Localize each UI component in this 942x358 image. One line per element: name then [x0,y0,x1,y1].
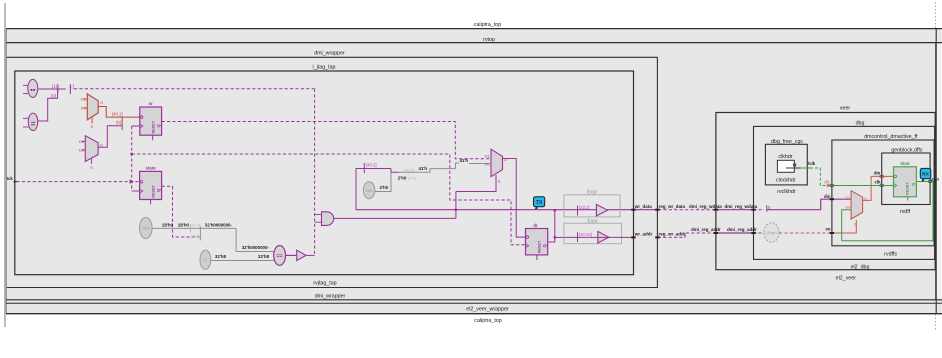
tick din dmcontrol [830,198,834,200]
svg-text:41'h: 41'h [460,158,469,163]
svg-text:[1:0]: [1:0] [408,176,416,181]
svg-text:el2_dbg: el2_dbg [851,265,870,271]
svg-text:D1: D1 [79,139,85,144]
expr box 2 [564,218,622,243]
module genblock.dffs box [882,153,930,205]
svg-text:[33:2]: [33:2] [579,205,589,210]
tick dout genblock [928,181,932,183]
node clk red tick [827,184,830,187]
svg-text:dout: dout [931,177,940,181]
expr1 buffer [596,204,607,216]
svg-text:clockhdr: clockhdr [776,177,796,183]
tick addr dbg [751,232,755,234]
wire 41h step [391,169,399,173]
wire wr_data dashed [658,209,716,211]
node pin bracket [767,205,770,212]
and gate G1 [315,212,334,226]
wire P1 output [38,88,66,90]
wire 8 to eq [211,260,274,262]
module rvtop top border [6,42,942,44]
svg-text:S: S [498,179,501,184]
comparator == [274,246,286,266]
svg-text:RESET: RESET [152,120,156,133]
tick wr_data i_jtag [631,209,635,211]
wire 28h0 concat [152,227,236,229]
svg-text:41'h: 41'h [419,166,428,171]
wire wr_data solid a [634,209,659,211]
svg-text:q: q [910,183,915,186]
svg-text:[40:1]: [40:1] [112,111,122,116]
wire 41h bus left [356,169,391,210]
svg-text:2h0: 2h0 [366,189,372,193]
svg-text:[0]: [0] [116,120,121,125]
tick wr_addr i_jtag [631,236,635,238]
node concat tick [190,224,192,232]
svg-text:[:]: [:] [70,84,74,89]
wire P2 to [0] tap [38,89,58,121]
wire and output [334,217,456,219]
wire wr_data labels [634,204,758,209]
wire en red solid [832,220,856,233]
expr1 tick [33:2] [578,205,590,216]
wire clk green dashed [810,168,830,186]
svg-text:en: en [825,227,830,232]
input port pad P1 [23,79,38,97]
svg-text:[]: [] [768,205,770,210]
svg-text:D1: D1 [81,97,87,102]
port tck [7,176,17,182]
svg-text:wr_data: wr_data [634,204,653,209]
node tick [40:2] [364,163,376,174]
wire din jog [767,199,851,210]
svg-text:dr: dr [533,223,538,228]
svg-text:(Expr): (Expr) [766,231,777,235]
svg-text:O: O [100,143,103,148]
svg-text:S: S [90,124,93,129]
clockhdr inner box [777,160,795,172]
svg-text:RESET: RESET [906,182,910,195]
wire S path [456,175,496,192]
svg-text:lclk: lclk [808,161,816,166]
svg-text:din: din [874,170,881,175]
svg-text:sr: sr [149,101,153,106]
tick wdata veer [714,209,718,211]
wire red tap [0] [116,117,122,130]
module rvtop bottom border [6,299,942,301]
flip-flop state [140,166,162,205]
svg-text:Expr: Expr [587,218,598,224]
svg-text:dmi_wrapper: dmi_wrapper [315,294,346,300]
mux M2 (purple) [79,136,103,170]
svg-text:S: S [90,165,93,170]
wire dmi_reg_addr solid [716,232,754,234]
expr2 buffer [598,231,609,243]
module caliptra_top top border [6,28,942,30]
module rvtop right border [935,43,937,300]
svg-text:el2_veer: el2_veer [836,276,857,282]
wire clkhdr out [786,167,801,169]
module caliptra_top / rvtop left borders [5,29,7,314]
svg-text:dout: dout [900,161,910,166]
svg-text:[31:4]: [31:4] [190,222,200,227]
svg-text:Expr: Expr [587,190,598,196]
wire tck dashed [17,181,140,183]
node bit select [1] [52,84,58,93]
svg-text:caliptra_top: caliptra_top [474,22,501,28]
junction tck [130,180,134,184]
module dmi_wrapper box [7,57,658,287]
wire tdi dashed vertical feedback [314,89,316,256]
svg-text:D0: D0 [81,106,87,111]
svg-text:D1: D1 [485,154,491,159]
junction clock net [130,153,133,156]
selection dotted right edge bottom [935,314,937,330]
wire expr2 through [565,236,634,238]
wire to expr2 [555,236,565,238]
svg-text:28h0: 28h0 [142,227,150,231]
svg-text:32'h0000000-: 32'h0000000- [205,222,233,227]
module veer box [716,113,935,270]
junction dr.Q bus [553,209,556,212]
wire 41h to M3.D0 [469,163,490,165]
tick addr veer [714,232,718,234]
flip-flop rvdff dout [894,161,917,200]
node bit select [0] [51,94,56,99]
svg-text:==: == [276,253,282,259]
svg-text:clk: clk [824,179,830,184]
svg-text:caliptra_top: caliptra_top [474,318,501,324]
tick wr_data dmi [655,209,659,211]
svg-text:clkhdr: clkhdr [778,154,792,160]
svg-text:S: S [854,222,857,227]
wire clk green solid [830,185,895,187]
input port pad P2 [23,113,38,130]
svg-text:dmcontrol_dmactive_ff: dmcontrol_dmactive_ff [864,134,918,140]
svg-text:RX: RX [922,172,929,178]
svg-text:O: O [100,100,103,105]
label 2h0 concat [398,176,416,181]
svg-text:O: O [504,157,507,162]
svg-text:dmi_reg_addr: dmi_reg_addr [691,227,721,232]
wire and-to-S vertical [455,192,457,219]
svg-text:28'h0: 28'h0 [178,222,190,227]
expr2 tick [40:34] [578,232,592,242]
svg-text:rvclkhdr: rvclkhdr [777,189,796,195]
module dbg_free_cgc box [765,144,807,185]
wire main bus [356,209,634,211]
svg-text:32'h8: 32'h8 [215,254,227,259]
svg-text:dbg: dbg [856,120,865,126]
svg-text:D0: D0 [845,205,851,210]
junction bus [455,208,458,211]
wire sr.Q dashed to M3.D1 [162,122,490,159]
node pin [:] [70,84,74,94]
wire 41h step up [456,163,460,169]
svg-text:rvdffs: rvdffs [884,252,897,258]
tick wdata dbg [751,209,755,211]
svg-text:veer: veer [840,106,851,112]
wire clock net vertical [132,126,140,191]
svg-text:32'h0000000-: 32'h0000000- [242,245,270,250]
wire 41h dashes [399,169,456,173]
svg-text:28'h0: 28'h0 [162,222,174,227]
svg-text:[3:2]: [3:2] [191,233,199,238]
wire dff q feedback [842,182,933,241]
mux M3 (purple) [485,149,507,177]
wire dr.Q up [548,210,555,242]
svg-text:RESET: RESET [537,240,541,253]
wire tdi dashed top [74,88,315,90]
wire M4 out to dff.D [863,176,894,200]
tick wr_addr dmi [655,236,659,238]
svg-text:i_jtag_tap: i_jtag_tap [313,64,336,70]
tick clk dmcontrol [830,185,834,187]
module caliptra_top bottom border [6,313,942,315]
svg-text:D0: D0 [79,148,85,153]
wire state.Q dashed [162,186,200,237]
module i_jtag_tap box [15,71,634,275]
flip-flop sr [140,101,162,140]
constant 2h0 ellipse [363,182,374,199]
tick en dmcontrol [830,232,834,234]
svg-text:tck: tck [7,176,14,181]
wire M2 output up to [0] tap [98,126,122,148]
constant 8 circle [200,250,211,269]
svg-text:genblock.dffs: genblock.dffs [891,147,922,153]
svg-text:el2_veer_wrapper: el2_veer_wrapper [466,306,509,312]
svg-text:rvtop: rvtop [483,37,495,43]
expr ellipse [764,223,779,243]
junction dr.Q expr2 [553,236,556,239]
module caliptra_top background band [4,29,942,314]
mux M1 (red) [81,94,103,129]
tick clk genblock [880,185,884,187]
svg-text:dmi_wrapper: dmi_wrapper [314,50,345,56]
wire 2h0 out [375,172,391,191]
svg-text:[40:2]: [40:2] [404,167,414,172]
svg-text:dbg_free_cgc: dbg_free_cgc [771,139,803,145]
svg-text:rvjtag_tap: rvjtag_tap [313,280,336,286]
svg-text:reg_wr_addr: reg_wr_addr [659,232,686,237]
wire wr_data dashed c [754,209,765,211]
wire clk green [801,167,811,169]
probe icon RX [920,168,931,181]
svg-text:dmi_reg_wdata: dmi_reg_wdata [725,204,758,209]
module rvtop bottom inner line [6,302,942,304]
svg-text:TX: TX [536,200,543,206]
svg-text:dmi_reg_addr: dmi_reg_addr [727,227,757,232]
tick din genblock [880,175,884,177]
module dbg box [754,126,935,259]
svg-text:[40:34]: [40:34] [579,232,592,237]
wire buffer out [306,254,315,256]
svg-text:RESET: RESET [151,184,155,197]
expr box 1 [564,190,620,217]
module dmcontrol_dmactive_ff box [832,140,934,246]
svg-text:D0: D0 [485,162,491,167]
svg-text:din: din [824,194,831,199]
wire wr_data solid b [716,209,754,211]
node state tap [199,226,201,240]
svg-text:32'h8: 32'h8 [258,254,270,259]
svg-text:D1: D1 [845,195,851,200]
svg-text:[1]: [1] [52,84,57,89]
svg-text:clk: clk [875,179,882,184]
flip-flop dr [526,223,548,260]
canvas left edge [4,3,6,327]
svg-text:rvdff: rvdff [900,209,911,215]
svg-text:reg_wr_data: reg_wr_data [659,204,686,209]
svg-text:[40:2]: [40:2] [366,163,376,168]
wire wr_addr dashed jog [658,233,716,237]
wire eq to buffer [286,254,297,256]
wire en red dashed [779,232,832,234]
wire M3 out to dr.D [503,159,527,238]
probe icon TX [534,197,545,210]
svg-text:2'h0: 2'h0 [380,185,389,190]
constant 28h0 ellipse [140,217,153,238]
wire dmi_reg_addr dashed [754,232,765,234]
wire M1 output to sr.D [98,107,140,118]
wire2 addr labels [634,227,757,236]
svg-text:state: state [145,166,156,171]
buffer B1 [297,250,306,260]
svg-text:dmi_reg_wdata: dmi_reg_wdata [689,204,722,209]
wire clock net to dr dashed [132,154,527,245]
selection dotted right edge top [935,2,937,28]
wire concat to eq [236,228,274,251]
svg-text:2'h0: 2'h0 [398,176,407,181]
svg-text:wr_addr: wr_addr [634,232,653,237]
mux M4 (red) [845,191,867,219]
